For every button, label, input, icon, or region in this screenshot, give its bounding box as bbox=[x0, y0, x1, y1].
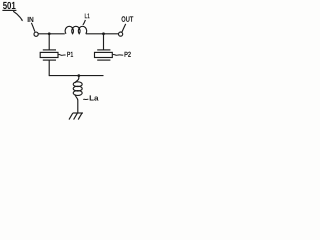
figure label 501 bbox=[2, 1, 16, 12]
terminal IN bbox=[34, 32, 38, 36]
node A junction dot bbox=[48, 32, 51, 35]
leader from P2 bbox=[113, 53, 123, 56]
leader from OUT to terminal bbox=[122, 24, 126, 32]
resonator P1 top lead wire bbox=[48, 34, 50, 50]
inductor L1 bbox=[65, 26, 87, 33]
resonator P1 bbox=[40, 50, 58, 60]
resonator P2 bbox=[95, 50, 113, 60]
wire IN terminal to L1 bbox=[38, 33, 65, 35]
svg-text:OUT: OUT bbox=[121, 15, 133, 24]
leader from 501 bbox=[13, 11, 22, 20]
leader from P1 bbox=[58, 54, 65, 57]
resonator P1 bottom lead wire bbox=[48, 60, 50, 76]
wire bottom bus bbox=[49, 75, 103, 77]
svg-text:IN: IN bbox=[27, 15, 34, 24]
wire L1 to OUT terminal bbox=[86, 33, 119, 35]
leader from La bbox=[83, 98, 88, 100]
terminal OUT bbox=[119, 32, 123, 36]
leader from L1 to coil bbox=[83, 20, 86, 25]
node B junction dot bbox=[102, 32, 105, 35]
ground bbox=[69, 113, 83, 120]
node C junction dot bbox=[77, 74, 80, 77]
inductor La bottom lead bbox=[75, 94, 78, 113]
inductor La top lead bbox=[75, 76, 79, 83]
inductor La bbox=[73, 82, 82, 96]
svg-text:La: La bbox=[89, 94, 99, 103]
svg-text:L1: L1 bbox=[84, 13, 89, 20]
svg-text:P2: P2 bbox=[124, 50, 131, 59]
leader from IN to terminal bbox=[31, 23, 35, 32]
resonator P2 top lead wire bbox=[103, 34, 105, 50]
svg-text:P1: P1 bbox=[67, 50, 73, 59]
